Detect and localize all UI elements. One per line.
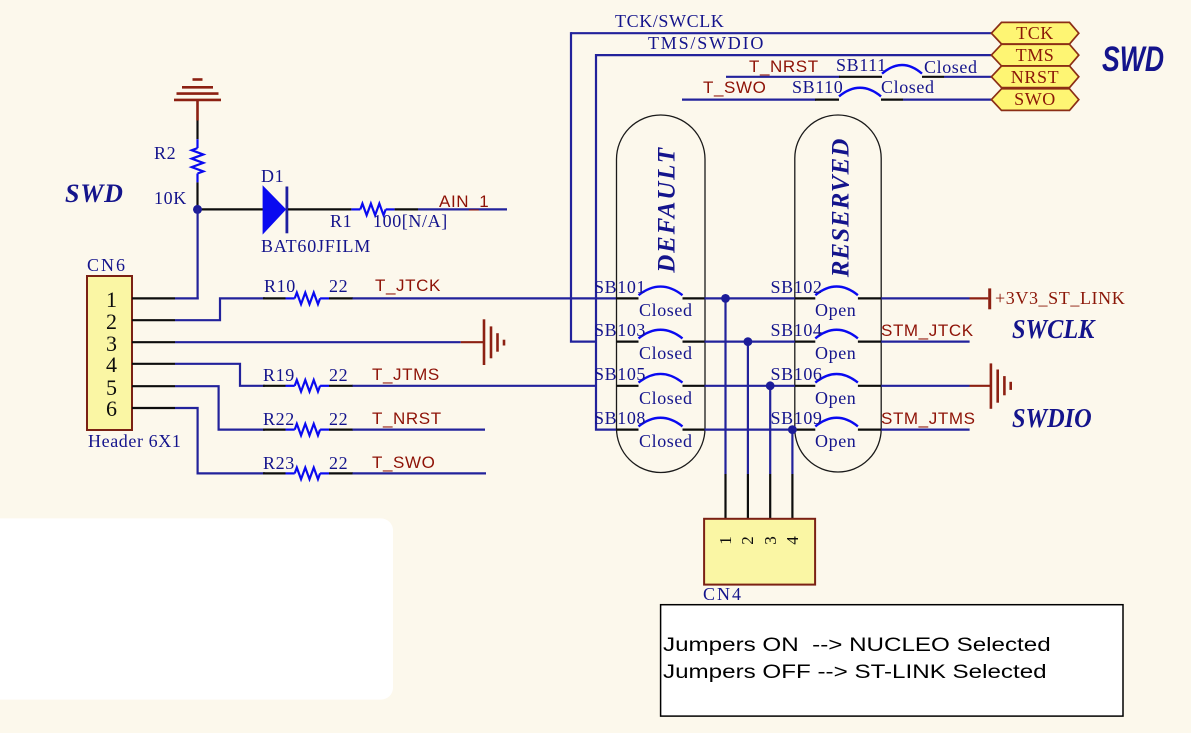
label SWCLK: [1012, 316, 1094, 343]
note text line 2: [663, 663, 1047, 683]
label SB108: [594, 409, 646, 427]
label SB101: [594, 278, 646, 296]
power +3V3_ST_LINK bar symbol: [970, 288, 990, 309]
solder bridge SB106: [795, 374, 881, 386]
wire TCK vertical drop to SB103: [571, 32, 596, 342]
wire drop V2 from SB103 row to CN4 pin2: [747, 342, 749, 519]
wire pin4 to R19 row: [175, 364, 265, 386]
label R23: [263, 454, 295, 472]
resistor R23: [263, 468, 353, 480]
solder bridge SB101: [617, 287, 705, 299]
solder bridge SB104: [795, 330, 881, 342]
label Open SB102: [815, 301, 856, 319]
net label AIN_1: [439, 193, 489, 210]
solder bridge SB111: [839, 65, 944, 77]
solder bridge SB108: [617, 418, 705, 430]
CN6 pin 4 stub: [132, 363, 175, 365]
wire black: junction to D1 anode: [197, 208, 265, 210]
wire T_SWO top stub left: [682, 98, 816, 100]
wire black: R2 to junction node A: [196, 182, 198, 210]
connector CN6 body: [87, 276, 132, 430]
CN6 pin number 6: [103, 398, 120, 420]
port TMS: [991, 44, 1078, 66]
junction dot rowC/V3: [766, 381, 775, 390]
label BAT60JFILM: [261, 237, 371, 255]
label SWD right: [1102, 42, 1164, 77]
CN4 pin number 3: [762, 532, 779, 549]
ground GND3 (right-facing) SWDIO row: [970, 363, 1011, 408]
CN4 pin number 4: [784, 532, 801, 549]
port label NRST: [991, 68, 1079, 86]
CN6 pin 1 stub: [132, 297, 175, 299]
wire black: D1 cathode to R1: [288, 208, 351, 210]
solder bridge SB105: [617, 374, 705, 386]
net label T_SWO top: [703, 79, 766, 96]
label Header 6X1: [88, 432, 181, 450]
wire drop V1 from SB101 row to CN4 pin1: [724, 298, 726, 519]
net label STM_JTCK: [881, 322, 974, 339]
solder bridge SB103: [617, 330, 705, 342]
label DEFAULT rotated: [654, 110, 679, 310]
label Open SB106: [815, 389, 856, 407]
wire rowA between stadiums: [705, 297, 796, 299]
solder bridge SB110: [815, 88, 903, 100]
connector CN4 body: [704, 519, 815, 585]
net label TCK/SWCLK: [615, 12, 724, 30]
wire pin5 to R22 row: [175, 386, 265, 429]
wire pin2 to R10 row: [175, 298, 265, 320]
wire T_NRST stub: [353, 429, 486, 431]
CN6 pin 5 stub: [132, 385, 175, 387]
label SB102: [771, 278, 823, 296]
stadium DEFAULT outline: [617, 115, 706, 473]
label Closed SB110: [881, 78, 935, 96]
wire T_JTMS row to TMS vertical: [353, 385, 597, 387]
wire SB109 to STM_JTMS: [881, 429, 969, 431]
label CN4: [703, 585, 743, 603]
wire drop V4 from SB108 row to CN4 pin4: [791, 430, 793, 519]
CN6 pin number 2: [103, 311, 120, 333]
wire drop V3 from SB105 row to CN4 pin3: [769, 386, 771, 519]
resistor R10: [263, 293, 353, 305]
label SB111: [836, 56, 887, 74]
resistor R1 zigzag: [351, 204, 418, 216]
wire AIN_1 net: [418, 208, 507, 210]
solder bridge SB109: [795, 418, 881, 430]
wire SB110 to SWO port: [903, 98, 991, 100]
label R2: [154, 144, 176, 162]
resistor R2 zigzag: [192, 139, 204, 182]
junction dot rowA/V1: [721, 294, 730, 303]
label Closed SB108: [639, 432, 693, 450]
wire pin3 to ground: [175, 341, 461, 343]
white panel bottom-left: [0, 518, 393, 699]
label R1: [330, 212, 352, 230]
net label TMS/SWDIO: [648, 34, 765, 52]
CN6 pin 6 stub: [132, 407, 175, 409]
label Closed SB103: [639, 344, 693, 362]
net label T_JTCK: [375, 277, 441, 294]
wire rowD between stadiums: [705, 429, 796, 431]
wire SB106 to ground: [881, 385, 969, 387]
port SWO: [991, 89, 1078, 111]
label SB104: [771, 321, 823, 339]
wire rowC between stadiums: [705, 385, 796, 387]
wire rowB between stadiums: [705, 341, 796, 343]
label 100[N/A]: [373, 212, 448, 230]
port label SWO: [991, 90, 1079, 108]
label Open SB104: [815, 344, 856, 362]
resistor R22: [263, 424, 353, 436]
wire black: ground to R2: [196, 121, 198, 140]
label SWD left: [65, 181, 124, 207]
wire TMS vertical drop to SB108: [596, 54, 617, 430]
label R10: [264, 277, 296, 295]
net label T_NRST top: [749, 58, 819, 75]
power label +3V3_ST_LINK: [995, 289, 1125, 307]
label Closed SB111: [924, 58, 978, 76]
note text line 1: [663, 636, 1051, 656]
label SWDIO: [1012, 405, 1092, 432]
port TCK: [991, 22, 1078, 44]
label Closed SB105: [639, 389, 693, 407]
wire TCK/SWCLK net line: [571, 32, 991, 34]
label R22: [263, 410, 295, 428]
wire pin6 to R23 row: [175, 408, 265, 473]
note box: [661, 605, 1123, 716]
label SB106: [771, 365, 823, 383]
CN6 pin number 3: [103, 333, 120, 355]
junction dot rowD/V4: [788, 425, 797, 434]
label Closed SB101: [639, 301, 693, 319]
CN4 pin number 1: [717, 532, 734, 549]
port label TCK: [991, 24, 1079, 42]
stadium RESERVED outline: [795, 115, 881, 472]
label 10K: [154, 189, 187, 207]
label SB103: [594, 321, 646, 339]
wire SB104 to STM_JTCK: [881, 341, 969, 343]
wire T_NRST top stub left: [726, 76, 840, 78]
port NRST: [991, 66, 1078, 88]
value 22 row1: [329, 277, 348, 295]
diode D1 (BAT60JFILM): [263, 187, 287, 234]
label SB109: [771, 409, 823, 427]
CN4 pin number 2: [739, 532, 756, 549]
wire SB102 to +3V3_ST_LINK: [881, 297, 969, 299]
CN6 pin number 5: [103, 377, 120, 399]
CN6 pin 3 stub: [132, 341, 175, 343]
net label STM_JTMS: [881, 410, 976, 427]
label CN6: [87, 256, 127, 274]
solder bridge SB102: [795, 287, 881, 299]
label SB105: [594, 365, 646, 383]
resistor R19: [263, 380, 353, 392]
value 22 row3: [329, 410, 348, 428]
wire navy: junction down to CN6 pin1: [175, 208, 199, 300]
label SB110: [792, 78, 843, 96]
net label T_JTMS: [372, 366, 440, 383]
wire T_SWO stub: [353, 472, 487, 474]
CN6 pin number 1: [103, 289, 120, 311]
wire TMS/SWDIO net line: [596, 54, 991, 56]
CN6 pin number 4: [103, 354, 120, 376]
label Open SB109: [815, 432, 856, 450]
wire SB111 to NRST port: [944, 76, 991, 78]
label RESERVED rotated: [829, 107, 854, 307]
net label T_SWO: [372, 454, 435, 471]
label D1: [261, 167, 284, 185]
wire T_JTCK row to SB101: [353, 297, 617, 299]
net label T_NRST: [372, 410, 442, 427]
label R19: [263, 366, 295, 384]
ground GND1 top earth symbol: [174, 80, 221, 121]
ground GND2 (right-facing) on pin3 wire: [461, 319, 504, 365]
port label TMS: [991, 46, 1079, 64]
node A junction dot: [193, 205, 202, 214]
junction dot rowB/V2: [744, 337, 753, 346]
CN6 pin 2 stub: [132, 319, 175, 321]
value 22 row4: [329, 454, 348, 472]
value 22 row2: [329, 366, 348, 384]
